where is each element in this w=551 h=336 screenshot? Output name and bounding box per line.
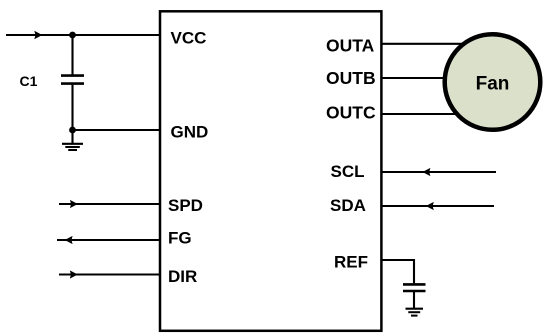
svg-text:GND: GND bbox=[171, 122, 209, 141]
wire OUTC bbox=[382, 113, 459, 115]
svg-text:OUTB: OUTB bbox=[326, 68, 376, 88]
node VCC/C1 junction bbox=[69, 32, 76, 39]
pin label REF bbox=[334, 252, 368, 271]
svg-text:C1: C1 bbox=[20, 73, 38, 89]
pin label OUTB bbox=[326, 68, 376, 88]
wire OUTA bbox=[382, 43, 463, 45]
pin label GND bbox=[171, 122, 209, 141]
svg-text:OUTA: OUTA bbox=[326, 36, 375, 56]
label Fan bbox=[476, 74, 510, 95]
wire REF bbox=[382, 259, 415, 283]
pin label OUTA bbox=[326, 36, 375, 56]
arrowhead FG (left) bbox=[65, 236, 73, 244]
wire SDA input bbox=[382, 205, 495, 207]
label C1 bbox=[20, 73, 38, 89]
ground symbol right bbox=[406, 309, 424, 316]
pin label DIR bbox=[168, 267, 197, 286]
svg-text:FG: FG bbox=[168, 228, 192, 247]
svg-text:SDA: SDA bbox=[330, 196, 366, 215]
wire OUTB bbox=[382, 77, 449, 79]
svg-text:DIR: DIR bbox=[168, 267, 197, 286]
pin label SPD bbox=[168, 196, 203, 215]
ground symbol left bbox=[62, 130, 83, 150]
arrowhead SDA (left) bbox=[426, 202, 434, 210]
pin label FG bbox=[168, 228, 192, 247]
wire SPD input bbox=[59, 203, 160, 205]
pin label SDA bbox=[330, 196, 366, 215]
wire GND bbox=[73, 129, 161, 131]
svg-text:Fan: Fan bbox=[476, 74, 510, 95]
arrowhead SPD (right) bbox=[70, 200, 78, 208]
svg-text:VCC: VCC bbox=[171, 29, 207, 48]
svg-text:SCL: SCL bbox=[331, 162, 365, 181]
wire VCC input bbox=[6, 34, 160, 36]
pin label OUTC bbox=[326, 103, 376, 123]
svg-text:OUTC: OUTC bbox=[326, 103, 376, 123]
arrowhead VCC input (right) bbox=[34, 31, 42, 39]
arrowhead SCL (left) bbox=[422, 168, 430, 176]
arrowhead DIR (right) bbox=[70, 270, 78, 278]
wire SCL input bbox=[382, 171, 497, 173]
fan M1 bbox=[445, 34, 541, 130]
node GND junction bbox=[69, 127, 76, 134]
capacitor C2 (REF bypass) bbox=[403, 284, 426, 308]
wire FG output bbox=[57, 239, 160, 241]
pin label SCL bbox=[331, 162, 365, 181]
capacitor C1 bbox=[61, 35, 84, 130]
IC U1 box bbox=[160, 11, 381, 331]
wire DIR input bbox=[59, 273, 160, 275]
svg-text:SPD: SPD bbox=[168, 196, 203, 215]
svg-text:REF: REF bbox=[334, 252, 368, 271]
pin label VCC bbox=[171, 29, 207, 48]
